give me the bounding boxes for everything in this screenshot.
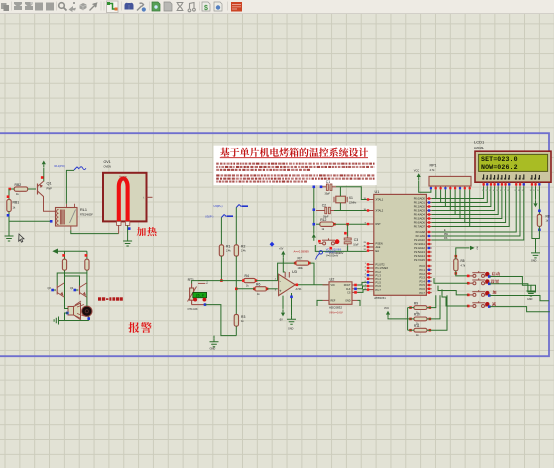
wire R2 top — [235, 208, 237, 245]
svg-text:12MHz: 12MHz — [349, 202, 357, 205]
wire R6 left to R2/R3 net — [236, 288, 255, 290]
power VCC arrow (LCD VDD) — [533, 203, 537, 207]
svg-text:P0.1/AD1: P0.1/AD1 — [414, 201, 426, 205]
svg-text:30: 30 — [363, 245, 366, 247]
wires R9-R11 right to MCU — [427, 295, 436, 307]
svg-text:5: 5 — [365, 277, 367, 279]
U2 pins right — [352, 284, 358, 286]
svg-text:P1.2: P1.2 — [376, 270, 382, 274]
wire base — [29, 188, 36, 190]
speaker magnet — [82, 306, 92, 316]
resistor R4 — [244, 278, 256, 282]
svg-text:10uF: 10uF — [353, 244, 359, 247]
svg-text:OV1: OV1 — [104, 160, 111, 164]
svg-text:3: 3 — [275, 289, 277, 291]
toolbar — [0, 0, 554, 14]
power arrow (buzzer rail) — [54, 249, 58, 253]
transistor Q3 (buzzer left) — [57, 283, 64, 297]
oven terminals — [117, 221, 121, 225]
svg-text:U1: U1 — [375, 190, 380, 194]
svg-text:GND: GND — [531, 260, 537, 263]
svg-text:ALE: ALE — [376, 245, 381, 249]
svg-text:SET=023.0: SET=023.0 — [481, 156, 518, 163]
voltage probe U1(RST) — [316, 251, 323, 260]
ground (buzzer, rotated) — [54, 317, 64, 325]
svg-text:P3.3: P3.3 — [419, 276, 425, 280]
U1 right pins — [414, 197, 432, 295]
resistor R14 (buzzer right) — [85, 259, 89, 270]
RT1 pins — [198, 280, 205, 282]
wire VEE/VSS to ground — [532, 190, 540, 238]
microcontroller U1 AT89C51 — [374, 194, 427, 295]
wire RST branch down — [347, 224, 349, 236]
svg-text:U3: U3 — [292, 270, 297, 274]
svg-text:P0.6/AD6: P0.6/AD6 — [414, 221, 426, 225]
wires X1 — [339, 187, 341, 196]
svg-text:RB2: RB2 — [15, 183, 22, 187]
svg-text:CLK: CLK — [346, 288, 351, 291]
svg-text:P3.0: P3.0 — [419, 264, 425, 268]
resistor R2 — [234, 245, 238, 256]
resistor pack RP1 — [429, 176, 471, 186]
svg-text:P0.5/AD5: P0.5/AD5 — [414, 217, 426, 221]
svg-text:P1.7: P1.7 — [376, 288, 382, 292]
svg-text:C2: C2 — [322, 203, 326, 207]
paragraph text (simulated tiny) — [216, 163, 219, 165]
svg-text:P0.2/AD2: P0.2/AD2 — [414, 205, 426, 209]
svg-text:-5V: -5V — [279, 319, 283, 322]
svg-text:X1: X1 — [349, 196, 353, 200]
oven right pin — [147, 196, 153, 198]
wires buttons left — [434, 278, 468, 283]
voltage probe RL1(PO) — [74, 167, 86, 170]
wires buttons right — [489, 277, 531, 288]
wire R1 top — [220, 218, 222, 245]
label 频率=1k响铃 (tiny red) — [98, 297, 123, 300]
wires buzzer cross-coupling — [64, 270, 66, 297]
svg-text:P3.6: P3.6 — [419, 287, 425, 291]
svg-text:100k: 100k — [298, 267, 304, 270]
wire Q4 base — [75, 289, 78, 291]
svg-text:R9: R9 — [414, 301, 418, 305]
wires E/RW/RS to P2 — [432, 190, 517, 232]
svg-text:P3.5: P3.5 — [419, 283, 425, 287]
svg-text:A741: A741 — [296, 287, 303, 291]
label 报警 — [128, 322, 151, 333]
svg-text:+5V: +5V — [279, 247, 284, 250]
svg-text:P1.5: P1.5 — [376, 281, 382, 285]
wire VCC to Q1 emitter — [43, 168, 45, 182]
svg-text:2.4k: 2.4k — [241, 250, 246, 253]
svg-text:C3: C3 — [354, 238, 358, 242]
svg-text:R1: R1 — [226, 245, 230, 249]
resistor RB2 — [14, 187, 28, 191]
svg-text:R10: R10 — [414, 313, 420, 317]
svg-text:P2.6/A14: P2.6/A14 — [414, 254, 425, 258]
svg-text:P2.7/A15: P2.7/A15 — [414, 258, 425, 262]
ADC U2 — [329, 282, 352, 305]
resistor R11 — [414, 328, 427, 332]
svg-text:P1.3: P1.3 — [376, 273, 382, 277]
wire oven right terminal to ground — [127, 225, 129, 237]
ground (left) — [5, 233, 14, 242]
wire R6 to op-amp non-inverting input — [267, 288, 278, 290]
svg-text:P3.4: P3.4 — [419, 279, 425, 283]
svg-text:P3.7: P3.7 — [419, 291, 425, 295]
svg-text:GND: GND — [527, 298, 533, 301]
svg-text:DOUT: DOUT — [344, 284, 351, 287]
wire bundle P0 to LCD data — [432, 190, 510, 227]
svg-text:26.0: 26.0 — [196, 295, 204, 299]
svg-text:R11: R11 — [414, 324, 420, 328]
svg-text:EA: EA — [376, 249, 380, 253]
svg-text:1k: 1k — [241, 320, 244, 323]
U1 left pins — [363, 198, 388, 292]
svg-text:GND: GND — [210, 346, 216, 350]
svg-text:R6: R6 — [256, 282, 260, 286]
relay RL1 — [56, 208, 78, 227]
wire C2 to XTAL2 — [334, 210, 367, 212]
resistor R10 — [414, 317, 427, 321]
wires U2 to U1 P1 pins — [358, 282, 367, 285]
wires speaker — [65, 297, 69, 309]
wire feedback loop — [278, 263, 296, 281]
push button K3 — [469, 290, 488, 296]
node marker (blue diamond) — [270, 242, 275, 247]
svg-text:VIN: VIN — [331, 284, 335, 287]
wire op-amp output to U2 — [295, 284, 328, 286]
svg-text:U3(IP-): U3(IP-) — [205, 215, 213, 219]
wire buzzer top rail — [58, 250, 87, 252]
RP1 pins — [431, 186, 470, 190]
resistor R5 (mid right) — [455, 255, 458, 258]
svg-text:VCC: VCC — [414, 168, 420, 172]
wire R1 bottom to input net — [220, 256, 222, 281]
wire U2 ref/gnd — [317, 300, 323, 306]
wire RB1 node to relay coil bottom — [9, 220, 52, 222]
resistor R8 — [538, 190, 540, 214]
svg-text:REF: REF — [331, 300, 336, 303]
svg-text:R8: R8 — [546, 215, 550, 219]
push button K4 — [469, 301, 488, 307]
wire RT1 bottom to gnd rail — [192, 304, 206, 306]
wire R9-R11 left rail — [407, 308, 409, 331]
svg-text:V=0.00mV: V=0.00mV — [326, 254, 338, 258]
svg-text:RL1: RL1 — [80, 208, 87, 212]
svg-text:+: + — [279, 288, 282, 293]
svg-text:RTE24005F: RTE24005F — [80, 214, 93, 217]
resistor RB1 — [7, 200, 11, 212]
svg-text:2: 2 — [365, 266, 367, 268]
resistor R13 (buzzer left) — [62, 259, 66, 270]
svg-text:1k: 1k — [322, 228, 325, 231]
resistor R1 — [219, 245, 223, 256]
net arrow terminal (P3) — [456, 248, 470, 250]
voltage probe (R1 top) — [221, 215, 233, 218]
svg-text:A=+0.59999: A=+0.59999 — [294, 250, 310, 254]
svg-text:AT89C51: AT89C51 — [374, 296, 386, 300]
button labels — [492, 272, 500, 276]
svg-text:30pF: 30pF — [325, 193, 331, 196]
power VCC arrow (Q1 emitter rail) — [42, 161, 46, 165]
wire relay to oven — [71, 230, 119, 233]
op-amp U3 — [279, 274, 296, 295]
resistor R3 — [234, 314, 238, 326]
push button (reset) — [319, 238, 338, 245]
svg-text:3: 3 — [365, 270, 367, 272]
speaker LS1 — [68, 301, 84, 320]
wire Q1 collector to relay coil — [44, 203, 56, 211]
svg-text:t2: t2 — [206, 282, 209, 285]
svg-text:XTAL2: XTAL2 — [376, 209, 384, 213]
svg-text:1k: 1k — [416, 334, 419, 337]
svg-text:P0.4/AD4: P0.4/AD4 — [414, 213, 426, 217]
svg-text:P2.4/A12: P2.4/A12 — [414, 246, 425, 250]
svg-text:1k: 1k — [257, 293, 260, 296]
svg-text:LCD1: LCD1 — [474, 140, 485, 145]
svg-text:P2.0/A8: P2.0/A8 — [416, 230, 426, 234]
svg-text:XTAL1: XTAL1 — [376, 198, 384, 202]
svg-text:P0.0/AD0: P0.0/AD0 — [414, 197, 426, 201]
svg-text:P3.2: P3.2 — [419, 272, 425, 276]
svg-text:P1.4: P1.4 — [376, 277, 382, 281]
heater element — [119, 179, 128, 222]
svg-text:50%: 50% — [121, 178, 127, 182]
svg-text:R12: R12 — [320, 218, 326, 222]
svg-text:GND: GND — [345, 300, 351, 303]
wire R12 to RST — [334, 223, 367, 225]
svg-text:RL1(PO): RL1(PO) — [55, 164, 65, 168]
transistor Q1 — [38, 181, 44, 203]
svg-text:Q4: Q4 — [70, 287, 74, 290]
ground (LCD) — [531, 249, 540, 258]
svg-text:VIN+=0.6V: VIN+=0.6V — [329, 310, 343, 314]
wire R2 bottom through R6 node to R3 — [235, 256, 237, 314]
voltage probe (R2 top) — [236, 205, 248, 208]
svg-text:R7: R7 — [298, 257, 302, 261]
svg-text:U1(RST): U1(RST) — [325, 250, 335, 254]
ground (op-amp offset) — [291, 293, 293, 316]
svg-text:P1.1/T2EX: P1.1/T2EX — [376, 266, 389, 270]
svg-text:RS: RS — [444, 237, 448, 240]
wire Q3 base — [53, 289, 56, 291]
capacitor C3 — [344, 236, 351, 246]
svg-text:2.4k: 2.4k — [226, 250, 231, 253]
svg-text:U2: U2 — [330, 278, 335, 282]
svg-text:PNP: PNP — [47, 187, 53, 191]
title text box — [214, 146, 377, 185]
ground (RT1) — [213, 336, 215, 339]
svg-text:29: 29 — [363, 242, 366, 244]
RT1 display — [193, 292, 207, 297]
svg-text:INT: INT — [476, 246, 478, 250]
svg-text:U3(IP+): U3(IP+) — [214, 204, 223, 208]
wire R3 bottom — [235, 326, 237, 335]
svg-text:1: 1 — [365, 263, 367, 265]
svg-text:P3.1: P3.1 — [419, 268, 425, 272]
title 基于单片机电烤箱的温控系统设计 — [220, 148, 368, 157]
svg-text:PSEN: PSEN — [376, 242, 383, 246]
oven OV1 — [103, 173, 147, 222]
resistor R7 (feedback) — [296, 261, 310, 265]
crystal X1 — [336, 196, 346, 203]
svg-text:1k: 1k — [246, 284, 249, 287]
svg-text:CS: CS — [347, 292, 351, 295]
svg-text:RST: RST — [376, 222, 382, 226]
sheet border — [0, 133, 549, 356]
LCD pins — [484, 182, 540, 190]
label 加热 — [137, 227, 157, 236]
svg-text:P2.5/A13: P2.5/A13 — [414, 250, 425, 254]
svg-text:LM016L: LM016L — [474, 146, 485, 150]
resistor R6 — [255, 287, 267, 291]
svg-text:P1.0/T2: P1.0/T2 — [376, 263, 386, 267]
svg-text:P0.7/AD7: P0.7/AD7 — [414, 225, 426, 229]
transistor Q4 (buzzer right) — [80, 283, 87, 297]
svg-text:NOW=026.2: NOW=026.2 — [481, 164, 518, 171]
svg-text:VCC: VCC — [384, 307, 389, 310]
mouse cursor — [19, 234, 24, 242]
svg-text:ADC0832: ADC0832 — [329, 306, 342, 310]
resistor R9 — [414, 306, 427, 310]
svg-text:RB1: RB1 — [13, 201, 20, 205]
svg-text:1k: 1k — [13, 206, 16, 210]
svg-text:31: 31 — [363, 249, 366, 251]
left VCC rail (C1/C2/R12) — [313, 187, 315, 234]
svg-text:GND: GND — [288, 328, 294, 331]
wire RB2 to RB1 — [8, 189, 10, 200]
svg-text:4.7k: 4.7k — [461, 264, 466, 267]
svg-text:P2.2/A10: P2.2/A10 — [414, 238, 425, 242]
svg-text:P2.1/A9: P2.1/A9 — [416, 234, 426, 238]
svg-text:1k: 1k — [16, 192, 19, 196]
LCD pin name marks — [482, 174, 540, 179]
wire R4 to op-amp inverting input — [256, 280, 278, 282]
svg-text:R3: R3 — [241, 315, 245, 319]
push button K1 — [469, 271, 488, 277]
svg-text:4.7k: 4.7k — [430, 168, 436, 172]
svg-text:P1.6: P1.6 — [376, 284, 382, 288]
svg-text:Q3: Q3 — [48, 287, 52, 290]
svg-text:Q1: Q1 — [47, 182, 52, 186]
svg-text:RP1: RP1 — [430, 163, 437, 167]
svg-text:OVEN: OVEN — [104, 165, 111, 169]
wire C1 to XTAL1 — [336, 187, 367, 200]
push button K2 — [469, 278, 488, 284]
ground (oven) — [123, 238, 132, 247]
svg-text:R2: R2 — [241, 245, 245, 249]
ground (buttons) — [526, 288, 535, 297]
wires reset button bottom rail — [315, 245, 347, 251]
resistor R12 — [320, 222, 334, 226]
svg-text:R4: R4 — [245, 274, 249, 278]
svg-text:R5: R5 — [461, 259, 465, 263]
wire RB1 to ground — [8, 212, 10, 233]
svg-text:4: 4 — [365, 274, 367, 276]
wire relay contact to probe — [66, 170, 74, 203]
svg-text:NTC-10K: NTC-10K — [188, 308, 198, 311]
svg-text:P2.3/A11: P2.3/A11 — [414, 242, 425, 246]
svg-text:P0.3/AD3: P0.3/AD3 — [414, 209, 426, 213]
wire RT1 to R4 — [192, 281, 244, 284]
